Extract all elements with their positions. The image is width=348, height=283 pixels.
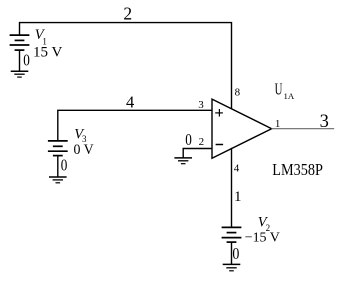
svg-text:3: 3 (198, 99, 204, 111)
svg-text:−15 V: −15 V (245, 230, 280, 245)
wire op-amp minus input pin 2 to ground (183, 149, 211, 158)
dc source V2 (222, 227, 242, 242)
svg-text:0: 0 (61, 155, 68, 174)
net label 2 (123, 3, 132, 23)
svg-text:0: 0 (23, 51, 30, 70)
svg-text:2: 2 (199, 136, 205, 148)
svg-text:U: U (275, 80, 283, 99)
value 0 V (74, 142, 94, 158)
net label 1 (234, 189, 242, 205)
svg-text:3: 3 (320, 112, 329, 132)
pin number 2 (199, 136, 205, 148)
dc source V3 (48, 141, 68, 156)
wire V2 minus terminal to ground (231, 242, 233, 264)
part number LM358P (272, 160, 323, 179)
net label 0 at pin 2 ground (185, 130, 192, 149)
dc source V1 (10, 35, 30, 50)
svg-text:1: 1 (234, 189, 242, 205)
net label 3 (320, 112, 329, 132)
label U1A (275, 80, 295, 101)
minus input marker (216, 144, 224, 146)
net label 0 at V1 ground (23, 51, 30, 70)
svg-text:4: 4 (126, 93, 134, 112)
wire V3 minus terminal to ground (57, 156, 59, 177)
ground symbol at V1 (11, 71, 29, 77)
svg-text:2: 2 (123, 3, 132, 23)
net label 4 (126, 93, 134, 112)
value -15 V (245, 230, 280, 245)
net label 0 at V3 ground (61, 155, 68, 174)
label V2 (258, 215, 270, 233)
label V3 (74, 126, 87, 144)
ground symbol at V3 (49, 177, 67, 183)
pin number 1 (275, 118, 281, 130)
svg-text:4: 4 (234, 163, 240, 175)
svg-text:LM358P: LM358P (272, 160, 323, 179)
plus input marker (215, 109, 223, 117)
svg-text:0: 0 (185, 130, 192, 149)
pin number 8 (235, 87, 241, 99)
ground symbol at op-amp pin 2 (174, 158, 192, 164)
svg-text:0: 0 (232, 244, 239, 263)
ground symbol at V2 (223, 264, 241, 270)
wire V1 minus terminal to ground (19, 50, 21, 71)
op-amp U1 triangle (212, 99, 272, 158)
svg-text:15 V: 15 V (33, 45, 63, 61)
pin number 3 (198, 99, 204, 111)
wire net 4 from V3 plus terminal to op-amp plus input pin 3 (58, 110, 212, 141)
wire output net 3 from op-amp pin 1 (271, 128, 334, 130)
svg-text:0 V: 0 V (74, 142, 94, 158)
wire net 2 from V1 plus terminal to op-amp V+ pin 8 (20, 23, 232, 109)
wire net 1 from op-amp V- pin 4 to V2 plus terminal (231, 148, 233, 228)
svg-text:8: 8 (235, 87, 241, 99)
value 15 V (33, 45, 63, 61)
net label 0 at V2 ground (232, 244, 239, 263)
label V1 (35, 27, 47, 47)
pin number 4 (234, 163, 240, 175)
svg-text:1A: 1A (284, 91, 295, 101)
